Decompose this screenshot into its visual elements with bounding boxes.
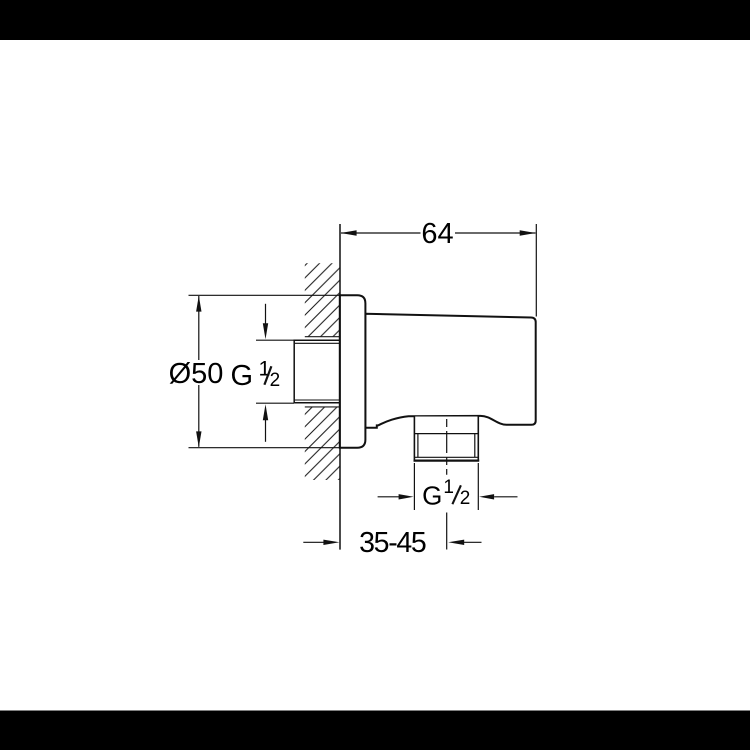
wall line xyxy=(339,224,341,550)
svg-text:2: 2 xyxy=(460,488,471,509)
bottom G 1/2 right arrowhead xyxy=(479,494,494,499)
dim 64 right extension line xyxy=(535,224,537,317)
wall hole bottom edge xyxy=(305,406,340,408)
dim O50 top extension line xyxy=(189,294,340,296)
pipe dim bottom tick xyxy=(256,402,294,404)
svg-text:Ø50: Ø50 xyxy=(169,358,224,390)
inlet pipe thread line bottom xyxy=(295,399,340,401)
dim O50 line lower segment xyxy=(198,385,200,447)
dim 64 right arrowhead xyxy=(520,230,536,235)
wall hatching lower band xyxy=(305,407,340,480)
wall hatching upper band xyxy=(305,263,340,337)
dim O50 bottom arrowhead xyxy=(196,431,201,447)
dim 35-45 right arrowhead xyxy=(448,540,464,545)
outlet right edge xyxy=(477,416,479,461)
dim 35-45 left line xyxy=(303,541,323,543)
svg-text:35-45: 35-45 xyxy=(359,527,426,559)
pipe dim upper arrow stem xyxy=(265,304,267,324)
bottom G 1/2 left arrow line xyxy=(378,496,400,498)
centerline upper dashed xyxy=(446,419,448,475)
outlet inner right thread line xyxy=(474,434,476,458)
body of wall union xyxy=(365,314,536,428)
bottom G 1/2 right arrow line xyxy=(494,496,517,498)
dim O50 top arrowhead xyxy=(196,296,201,312)
bottom G 1/2 left arrowhead xyxy=(399,494,414,499)
pipe dim lower arrowhead xyxy=(263,404,268,420)
centerline lower xyxy=(446,513,448,550)
pipe dim lower arrow stem xyxy=(265,420,267,442)
outlet mid line xyxy=(414,433,478,435)
outlet left edge xyxy=(413,416,415,461)
left G 1/2 label slash xyxy=(264,366,271,385)
inlet pipe G1/2 body xyxy=(294,340,340,403)
svg-text:1: 1 xyxy=(443,477,454,498)
dim 64 left arrowhead xyxy=(341,230,357,235)
svg-text:G: G xyxy=(231,360,254,392)
pipe dim upper arrowhead xyxy=(263,323,268,339)
outlet bottom edge xyxy=(414,460,480,462)
dim O50 bottom extension line xyxy=(189,447,340,449)
bottom black bar xyxy=(0,711,750,750)
dim O50 line upper segment xyxy=(198,296,200,360)
pipe dim top tick xyxy=(256,339,294,341)
dim 35-45 left arrowhead xyxy=(323,540,339,545)
outlet spigot fill xyxy=(414,417,478,461)
bottom G 1/2 left extension line xyxy=(413,463,415,510)
bottom G 1/2 label slash xyxy=(452,485,461,504)
inlet pipe thread line top xyxy=(295,342,340,344)
outlet inner left thread line xyxy=(417,434,419,458)
dim 35-45 right line xyxy=(464,541,482,543)
outlet inner bottom line xyxy=(415,456,479,458)
bottom G 1/2 right extension line xyxy=(477,463,479,510)
wall hole top edge xyxy=(305,336,340,338)
dim 64 line right segment xyxy=(455,232,536,234)
top black bar xyxy=(0,0,750,40)
svg-text:64: 64 xyxy=(421,218,453,250)
svg-text:2: 2 xyxy=(270,370,281,391)
svg-text:G: G xyxy=(422,481,442,511)
flange escutcheon xyxy=(340,295,366,447)
dim 64 line left segment xyxy=(341,232,421,234)
